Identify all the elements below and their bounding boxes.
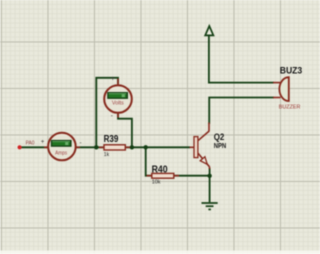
svg-text:10k: 10k [152,180,161,186]
svg-text:-: - [79,139,81,146]
svg-text:Amps: Amps [55,150,67,156]
svg-text:R39: R39 [104,134,119,145]
svg-text:BUZ3: BUZ3 [280,65,302,76]
svg-text:BUZZER: BUZZER [279,104,301,110]
svg-text:+: + [41,138,45,145]
svg-text:Volts: Volts [112,101,124,107]
svg-text:+: + [111,75,115,82]
svg-text:R40: R40 [152,164,168,175]
svg-text:NPN: NPN [214,143,227,150]
svg-text:-: - [111,113,113,120]
svg-text:Q2: Q2 [214,132,225,143]
svg-text:1k: 1k [104,152,110,158]
svg-text:PA0: PA0 [26,140,35,146]
